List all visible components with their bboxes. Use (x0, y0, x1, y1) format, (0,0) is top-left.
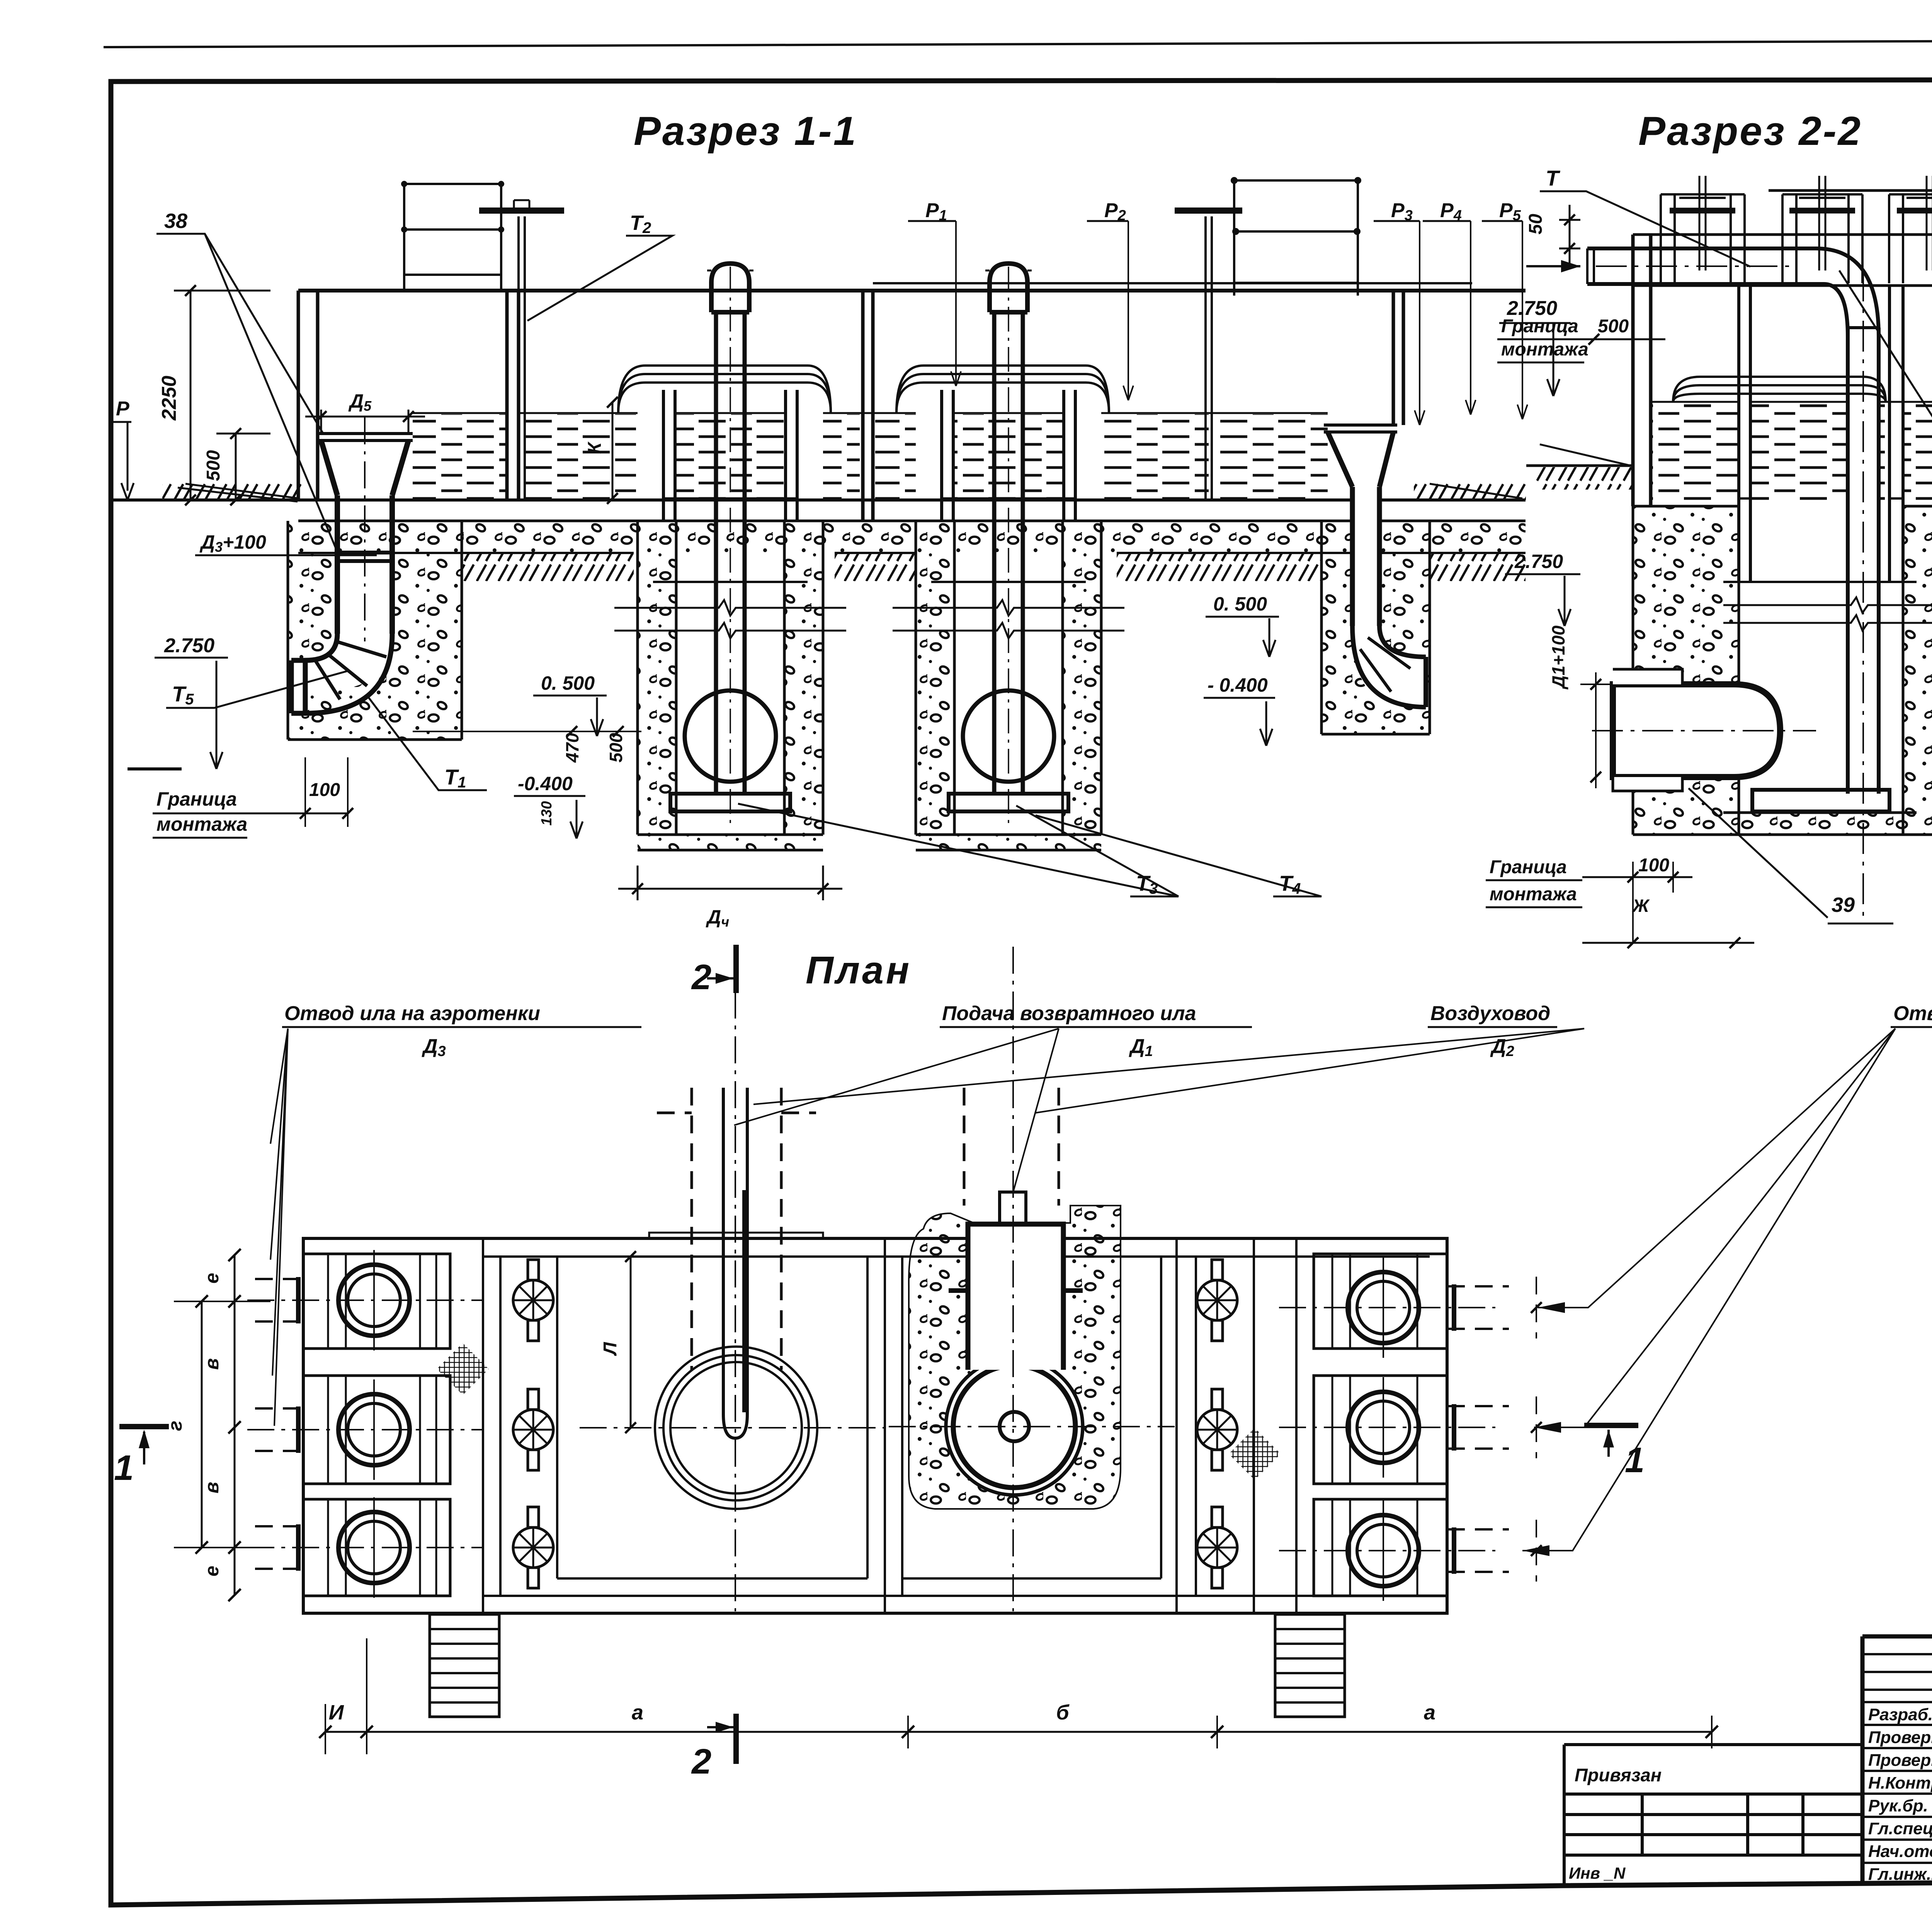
right end wall section 1-1 (1393, 291, 1403, 425)
shaft pit concrete columns (638, 521, 676, 835)
pipe centerline (730, 267, 731, 823)
valve stem T2 (519, 216, 525, 500)
air-lift bell circle (963, 690, 1054, 782)
section marker 1 left (119, 1424, 169, 1429)
svg-text:0. 500: 0. 500 (541, 672, 595, 694)
shaft chamber walls at x=2610 (942, 390, 1075, 521)
left pedestal dimension frame (404, 184, 501, 291)
svg-text:Д1+100: Д1+100 (1548, 625, 1568, 690)
P3 valve stem (1206, 216, 1212, 500)
bottom plate (949, 794, 1068, 811)
K dimension in channel (612, 402, 614, 498)
riser pipe plan 1 (723, 1088, 747, 1438)
section 2-2 deck slab (1633, 190, 1932, 286)
right outlet cells (1314, 1254, 1447, 1349)
svg-text:Отвод ила на аэротенки: Отвод ила на аэротенки (284, 1002, 540, 1025)
svg-text:монтажа: монтажа (1490, 884, 1577, 905)
dim Dch under left shaft (618, 866, 842, 900)
left funnel riser (pos 38/T5) (288, 521, 462, 740)
overflow hood arcs (618, 366, 831, 413)
svg-text:Воздуховод: Воздуховод (1430, 1002, 1550, 1025)
svg-text:Рук.бр.: Рук.бр. (1868, 1796, 1928, 1815)
dim 2250 vertical (174, 291, 270, 500)
shaft flange lines (931, 498, 1086, 582)
svg-text:Д3+100: Д3+100 (199, 531, 266, 555)
pipe centerline (1008, 267, 1009, 823)
svg-text:Граница: Граница (1490, 857, 1567, 878)
svg-text:500: 500 (1598, 316, 1629, 337)
leader fan from label 3 (vozduhovod) (753, 1029, 1584, 1113)
svg-text:б: б (1056, 1701, 1070, 1724)
svg-text:Ж: Ж (1632, 896, 1650, 916)
break marks (614, 600, 846, 616)
svg-text:в: в (201, 1482, 223, 1493)
stadium outlet pos 39 (1613, 684, 1780, 777)
svg-text:500: 500 (606, 733, 626, 762)
big ring chamber 2 (bold) (946, 1358, 1083, 1495)
air-lift bell circle (685, 690, 776, 782)
svg-text:е: е (201, 1566, 223, 1577)
svg-text:50: 50 (1526, 214, 1546, 235)
valve column right (1212, 1260, 1223, 1341)
section 2-2 foundation blocks (1633, 506, 1739, 835)
leader fan from label 4 (otvod right) (1538, 1029, 1895, 1308)
center divider walls (885, 1238, 902, 1613)
privyazan block (1564, 1745, 1862, 1885)
funnel elbow (291, 634, 392, 713)
P3 vent pedestal (1234, 180, 1358, 296)
concrete blob chamber 2 (909, 1206, 1121, 1509)
big ring chamber 1 (655, 1347, 817, 1509)
dashed guide walls plan 1 (692, 1088, 781, 1370)
vertical riser pipe (1848, 328, 1879, 794)
horizontal pipe T (1587, 248, 1824, 284)
svg-text:Граница: Граница (156, 788, 237, 810)
section 2-2 shaft walls (1739, 286, 1903, 582)
leader fan from label 1 (otvod left) (270, 1029, 288, 1144)
title block staff table (1862, 1636, 1932, 1885)
break marks (893, 600, 1124, 616)
svg-text:500: 500 (203, 450, 224, 481)
floor line section 1-1 (323, 498, 1526, 502)
bottom dimension chain plan (325, 1731, 1712, 1733)
svg-text:Отвод ила на аэротенки: Отвод ила на аэротенки (1893, 1002, 1932, 1025)
svg-text:Граница: Граница (1501, 316, 1578, 337)
pit bottom slab (916, 835, 1101, 850)
svg-text:38: 38 (164, 209, 187, 233)
inner chamber box left (557, 1257, 867, 1578)
section 2-2 ground left (1526, 464, 1633, 467)
funnel taper (321, 440, 408, 495)
svg-text:Привязан: Привязан (1575, 1765, 1662, 1785)
stairs right plan (1275, 1614, 1345, 1717)
svg-text:0. 500: 0. 500 (1213, 593, 1267, 615)
svg-text:Р: Р (116, 398, 129, 420)
svg-text:Провер.: Провер. (1868, 1728, 1932, 1747)
riser box plan 2 (968, 1223, 1063, 1370)
svg-text:Т: Т (1546, 166, 1561, 190)
svg-text:2: 2 (691, 1742, 711, 1781)
shaft flange lines (653, 498, 808, 582)
svg-text:1: 1 (114, 1448, 134, 1488)
right area wall (1177, 1238, 1296, 1613)
stairs left plan (430, 1614, 499, 1717)
water dash regions section 1-1 (413, 414, 507, 498)
section 2-2 pedestals with valves (1661, 194, 1745, 283)
svg-text:2.750: 2.750 (164, 634, 214, 657)
svg-text:План: План (806, 949, 912, 992)
svg-text:а: а (1424, 1701, 1435, 1724)
hood arcs 2-2 (1673, 377, 1886, 402)
section 1-1 tank top rim lines (298, 289, 1526, 293)
svg-text:Провер.: Провер. (1868, 1751, 1932, 1770)
funnel centerline (364, 417, 366, 641)
pipe cap (990, 264, 1027, 312)
svg-text:в: в (201, 1358, 223, 1370)
funnel rim (317, 434, 413, 440)
pipe cap (711, 264, 749, 312)
neck plan 2 (1000, 1192, 1026, 1224)
svg-text:39: 39 (1832, 893, 1855, 917)
left dimension chain plan (234, 1255, 236, 1596)
shaft chamber walls at x=1890 (663, 390, 797, 521)
right ground hatch (1414, 483, 1526, 500)
svg-text:Подача возвратного ила: Подача возвратного ила (942, 1002, 1196, 1025)
svg-text:- 0.400: - 0.400 (1207, 674, 1268, 696)
svg-text:130: 130 (539, 801, 555, 825)
svg-text:И: И (329, 1701, 344, 1724)
svg-text:Гл.спец.: Гл.спец. (1868, 1819, 1932, 1838)
inner chamber box right (902, 1257, 1161, 1578)
svg-text:100: 100 (1638, 855, 1669, 876)
dim D5 above funnel (305, 410, 425, 434)
channel wall after funnel (507, 291, 519, 500)
L dimension plan (630, 1257, 632, 1428)
svg-text:Н.Контр.: Н.Контр. (1868, 1774, 1932, 1793)
cap plate plan 1 (649, 1233, 823, 1238)
dim 500 vertical left (216, 434, 270, 500)
svg-text:а: а (632, 1701, 643, 1724)
break marks 2-2 (1723, 597, 1932, 631)
svg-text:Разраб.: Разраб. (1868, 1705, 1932, 1724)
section 2-2 water (1651, 402, 1739, 502)
plan outer rectangle (303, 1238, 1447, 1613)
water top edge lines (413, 412, 1328, 414)
tank left wall (483, 1238, 500, 1613)
svg-text:К: К (585, 441, 605, 454)
center divider wall between shafts (863, 291, 873, 521)
foundation slab band with stipple (298, 521, 1526, 553)
right funnel T4 (1321, 521, 1430, 734)
svg-text:Инв _N: Инв _N (1569, 1864, 1626, 1882)
plan pipe labels row (284, 1002, 1932, 1060)
centerlines plan 2 (1012, 947, 1014, 1611)
air pipe (994, 312, 1023, 794)
overflow hood arcs (896, 366, 1109, 413)
section marker 1 right (1584, 1423, 1638, 1428)
left outlet cells (303, 1254, 450, 1349)
air pipe (716, 312, 745, 794)
funnel pipe walls (337, 495, 392, 634)
pit bottom slab (638, 835, 823, 850)
paper edge thin line top (104, 39, 1932, 47)
svg-text:100: 100 (309, 780, 340, 800)
pipe elbow down (1816, 248, 1879, 336)
svg-text:монтажа: монтажа (156, 813, 247, 835)
pit bottom 2-2 (1739, 813, 1903, 835)
crosshatch waffle marks (437, 1343, 489, 1395)
left ground line and earth hatch (111, 498, 323, 502)
pit inner walls (676, 553, 784, 794)
svg-text:470: 470 (562, 733, 582, 763)
svg-text:2.750: 2.750 (1514, 551, 1563, 572)
valve column left (528, 1260, 539, 1341)
bottom plate (670, 794, 790, 811)
svg-text:Л: Л (600, 1342, 621, 1356)
svg-text:-0.400: -0.400 (518, 773, 573, 794)
svg-text:е: е (201, 1273, 223, 1284)
svg-text:монтажа: монтажа (1501, 339, 1588, 360)
earth hatch under slab (462, 554, 634, 581)
svg-text:2250: 2250 (158, 376, 180, 421)
tank bottom second line (483, 1595, 1430, 1597)
svg-text:Разрез 1-1: Разрез 1-1 (634, 109, 857, 154)
leader fan from label 2 (podacha) (734, 1029, 1059, 1192)
svg-text:Нач.отд.: Нач.отд. (1868, 1842, 1932, 1861)
centerlines plan 1 (735, 947, 736, 1611)
svg-text:Разрез 2-2: Разрез 2-2 (1638, 109, 1862, 154)
svg-text:Гл.инж.пр.: Гл.инж.пр. (1868, 1865, 1932, 1884)
bottom plate 2-2 (1752, 790, 1889, 811)
svg-text:1: 1 (1625, 1440, 1645, 1480)
section 1-1 left outer wall (298, 291, 318, 500)
pit inner walls (954, 553, 1063, 794)
shaft pit concrete columns (916, 521, 954, 835)
